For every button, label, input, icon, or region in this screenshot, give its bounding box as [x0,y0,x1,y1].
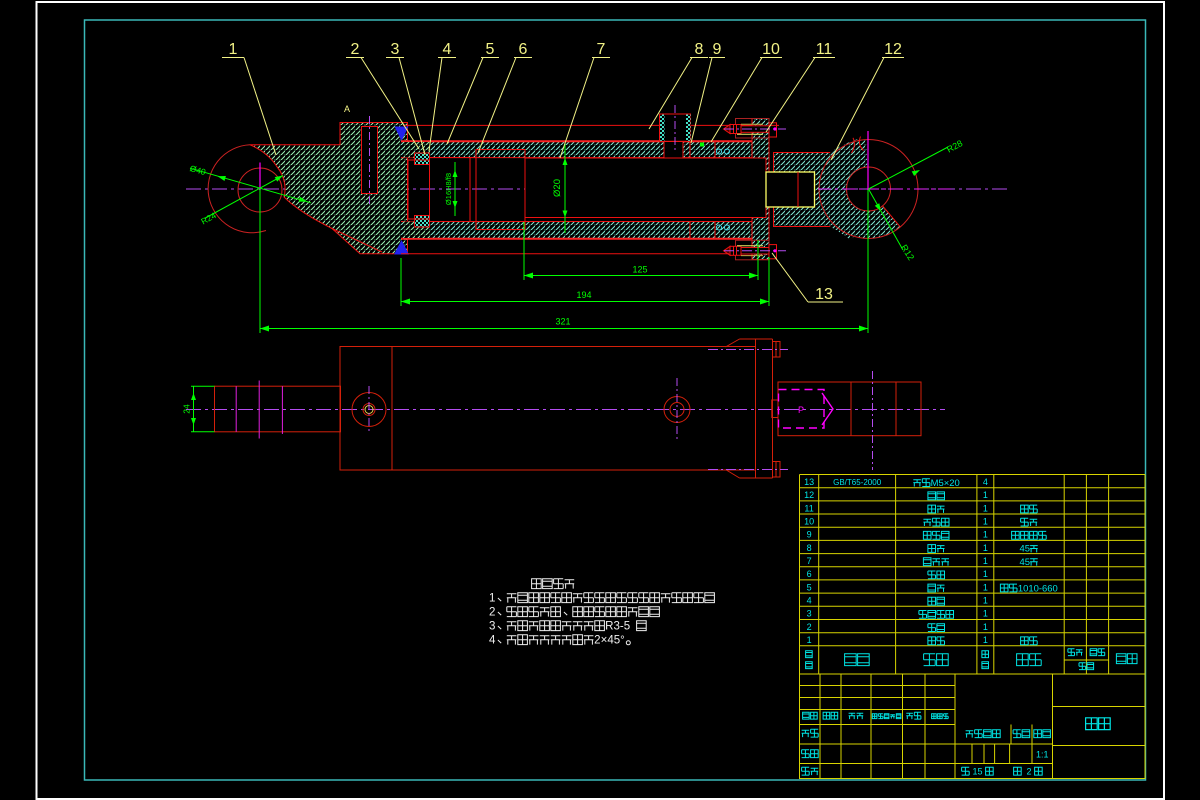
dimension R28 [869,147,949,189]
svg-text:2: 2 [1026,767,1031,777]
piston rod (item 7) [525,158,766,218]
dimension 194 [401,301,769,303]
flange top tab [740,338,773,340]
svg-text:1: 1 [229,41,238,58]
bottom view left arm [215,386,341,432]
piston seal top (item 2) [415,153,430,165]
svg-text:1010-660: 1010-660 [1018,583,1058,594]
svg-text:Ø16H8/f8: Ø16H8/f8 [444,173,453,205]
svg-text:6: 6 [807,569,812,579]
extension line rod end right [768,257,770,306]
rod gland flange (item 9-11 area) [752,119,769,260]
piston retainer (item 3) [408,160,430,219]
rod end block hatched [774,153,832,227]
rod clevis hidden outline (dashed) [779,390,825,429]
barrel right end line [767,141,769,238]
svg-text:13: 13 [815,286,833,303]
svg-text:6: 6 [519,41,528,58]
clevis arrow chevron [822,393,833,425]
svg-text:1: 1 [983,569,988,579]
svg-text:R12: R12 [899,243,916,262]
extension line rod face [523,222,525,280]
svg-text:1: 1 [983,516,988,526]
svg-text:12: 12 [884,41,902,58]
stage mark labels [966,731,974,738]
bottom view rod [778,382,921,436]
title block grid [800,674,1146,779]
extension line right eye center [867,190,869,333]
piston seal bottom [415,216,430,228]
cap mounting slot [362,127,378,194]
svg-text:4: 4 [443,41,452,58]
svg-text:13: 13 [804,477,814,487]
cap spigot hatch bottom [403,222,430,239]
extension line barrel right [757,240,759,280]
svg-text:45: 45 [1019,544,1029,555]
dimension 321 [260,328,868,330]
svg-text:A: A [344,104,350,114]
dimension R12 [869,189,904,250]
title block row labels [803,712,810,719]
inlet port boss [660,114,691,141]
rear hole centerline [676,378,678,441]
cap skirt slant line [332,229,382,253]
left eye pin bore circle [238,168,282,212]
dimension R24 of eye [205,176,284,219]
bottom view main centerline [186,409,945,411]
right eye notch cut [852,137,864,154]
BOM header row text [806,651,813,658]
screw M5 top (item 11) [730,125,741,134]
screw M5 top pocket [736,119,770,139]
left eye vertical centerline magenta [259,163,261,191]
dimension D40 of eye bore [190,168,311,203]
flange bottom tab [740,477,773,479]
svg-text:45: 45 [1019,557,1029,568]
svg-text:P: P [798,405,804,415]
dimension 125 [524,275,758,277]
port boss centerline [674,105,676,152]
svg-text:1: 1 [807,635,812,645]
screw bottom centerline [724,250,786,252]
svg-text:9: 9 [807,530,812,540]
flange screw bottom centerline [708,469,788,471]
left eye outer arc [208,145,266,233]
rod end neck hatched connector bottom [830,206,858,240]
svg-text:1: 1 [983,609,988,619]
svg-text:8: 8 [695,41,704,58]
flange outline line above barrel [403,124,779,126]
svg-text:7: 7 [807,556,812,566]
svg-text:3: 3 [807,609,812,619]
svg-text:5: 5 [486,41,495,58]
hole centerline [368,386,370,434]
svg-text:321: 321 [555,317,570,327]
svg-text:11: 11 [804,503,813,513]
svg-text:R3-5: R3-5 [605,621,630,633]
svg-text:1: 1 [983,543,988,553]
svg-text:1: 1 [983,490,988,500]
technical requirements title [532,579,542,589]
screw M5 bottom pocket [736,240,770,259]
part title qigang [1086,718,1098,730]
main horizontal centerline [186,188,1008,190]
screw top engagement block [769,123,777,137]
section arrow bottom (blue) [394,240,409,255]
svg-text:3: 3 [391,41,400,58]
right eye bore circle [847,167,891,211]
svg-text:194: 194 [576,290,591,300]
barrel bottom skirt line [401,253,729,255]
body front hole circles [352,393,386,427]
seal dots on gland [717,149,722,154]
cylinder cap body with eye neck (item 1) [250,123,408,254]
svg-text:1: 1 [983,530,988,540]
arm joint lines magenta [235,386,237,432]
piston ring groove (item 5) [470,158,476,222]
right eye outer circle [819,140,918,239]
extension line eye center left [259,190,261,333]
svg-text:R28: R28 [945,138,964,155]
right eye vertical centerline magenta [867,131,869,190]
svg-text:GB/T65-2000: GB/T65-2000 [833,478,882,487]
piston body (item 4) [430,158,471,222]
svg-text:4: 4 [807,596,812,606]
body weld line [391,347,393,471]
svg-text:1: 1 [983,622,988,632]
svg-text:1: 1 [983,635,988,645]
svg-text:1: 1 [983,596,988,606]
svg-text:M5×20: M5×20 [931,478,960,489]
svg-text:4: 4 [983,477,988,487]
svg-text:5: 5 [807,582,812,592]
rod stud [772,400,778,418]
svg-text:2: 2 [807,622,812,632]
svg-text:10: 10 [804,516,814,526]
rod threaded end highlight box [766,172,815,207]
rear flange plate [755,339,757,478]
screw bottom engagement block [769,245,777,259]
svg-text:2: 2 [489,607,495,619]
section arrow top (blue) [395,127,409,142]
screw M5 bottom (item 13) [730,246,741,255]
piston hub (item 6) [476,150,525,230]
right eye hatched section donut [819,140,900,239]
svg-text:2×45°: 2×45° [594,635,625,647]
svg-text:7: 7 [597,41,606,58]
svg-text:2: 2 [351,41,360,58]
screw top centerline [724,128,786,130]
right eye horizontal centerline bright [818,188,952,190]
svg-text:4: 4 [489,635,496,647]
gland joint verticals [689,141,691,158]
cap slot centerline [369,116,371,206]
svg-text:9: 9 [713,41,722,58]
svg-text:15: 15 [972,767,982,777]
svg-text:1: 1 [489,593,495,605]
BOM table grid [800,475,1146,675]
svg-text:8: 8 [807,543,812,553]
svg-text:125: 125 [632,265,647,275]
cap spigot hatch top [403,142,430,158]
rod end neck hatched connector top [830,139,866,172]
svg-text:12: 12 [804,490,814,500]
dimension D16H8 of piston bore [454,162,456,216]
dimension 24 [193,386,195,432]
barrel port hole gap [664,142,683,159]
cylinder barrel bottom wall section [401,222,768,239]
svg-text:11: 11 [816,41,833,58]
right eye centerline projection [872,371,874,470]
svg-text:1: 1 [983,582,988,592]
svg-text:1: 1 [983,556,988,566]
flange screw bottom [773,462,781,478]
dimension D20 of rod [564,143,566,233]
svg-text:3: 3 [489,621,495,633]
svg-text:10: 10 [762,41,780,58]
extension line cap left [400,258,402,306]
right eye sector edge line [883,206,901,227]
flange screw top [773,342,781,358]
svg-text:Ø20: Ø20 [552,179,563,197]
svg-text:1:1: 1:1 [1036,750,1049,760]
svg-text:Ø40: Ø40 [189,163,207,177]
sheet count labels [962,767,970,775]
bottom view cylinder body [340,347,756,471]
body rear hole circles [664,397,690,423]
cylinder barrel top wall section (item 8) [401,142,768,158]
svg-text:1: 1 [983,503,988,513]
rod joint lines [850,382,852,436]
svg-text:24: 24 [182,404,192,414]
flange screw top centerline [708,349,788,351]
